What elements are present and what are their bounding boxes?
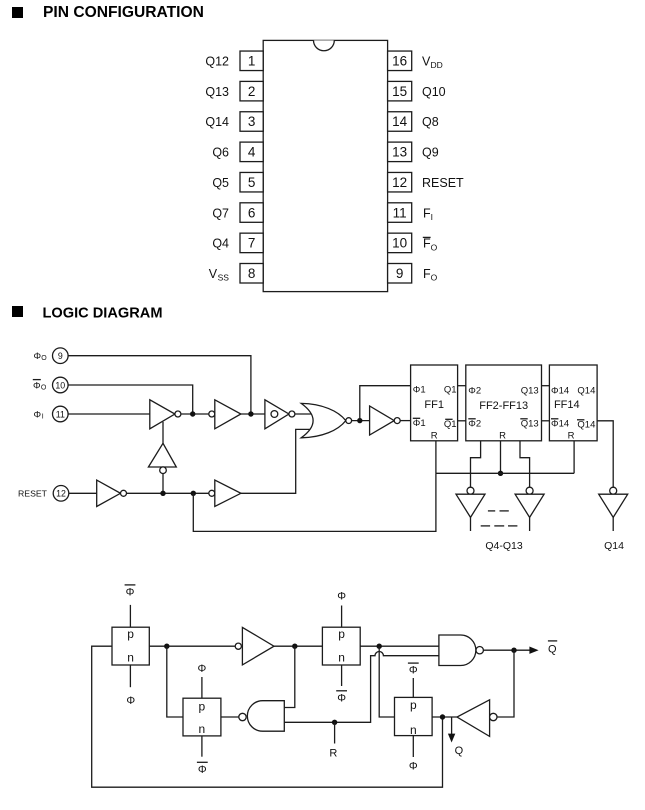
svg-text:Q14: Q14 — [205, 115, 229, 129]
transmission gate TG2 — [322, 627, 360, 665]
svg-text:Q10: Q10 — [422, 85, 446, 99]
svg-text:Q6: Q6 — [212, 146, 229, 160]
svg-text:Q13: Q13 — [205, 85, 229, 99]
svg-text:15: 15 — [392, 84, 407, 99]
node F junction — [164, 644, 169, 649]
node J junction — [440, 714, 445, 719]
wire pin 12 to inverter G7 — [69, 492, 97, 494]
section bullet: logic diagram — [12, 306, 23, 317]
svg-text:Φ1: Φ1 — [413, 385, 426, 396]
svg-text:11: 11 — [393, 205, 407, 220]
svg-text:I: I — [431, 212, 433, 222]
wire FF14 R to reset bus — [573, 441, 575, 474]
wire phi-bar to TG4 — [412, 678, 414, 697]
reset bus junction — [498, 471, 503, 476]
transmission gate TG3 — [183, 698, 221, 736]
svg-text:FF14: FF14 — [554, 399, 580, 411]
svg-text:RESET: RESET — [18, 489, 48, 499]
pin circle 12 — [53, 486, 69, 502]
svg-text:I: I — [42, 414, 44, 421]
svg-text:10: 10 — [55, 380, 65, 390]
svg-text:Q14: Q14 — [577, 419, 595, 430]
svg-text:12: 12 — [392, 175, 407, 190]
wire Q1-bar to phi2-bar — [458, 420, 466, 422]
svg-text:O: O — [431, 242, 438, 252]
node PhiI label — [34, 409, 44, 420]
pin 12 box — [388, 172, 412, 192]
pin 11 label FI — [423, 206, 433, 222]
wire Q14-bar to buffer BC — [597, 421, 613, 487]
pin 3 box — [240, 112, 263, 132]
pin 15 box — [388, 81, 412, 101]
pin 4 box — [240, 142, 263, 162]
svg-text:Q13: Q13 — [521, 418, 539, 429]
TG2 phi-bar label — [336, 691, 347, 705]
wire G2 to G3 — [241, 413, 265, 415]
pin 9 box — [388, 264, 412, 284]
flip-flop FF14 — [549, 365, 597, 441]
wire TG2 to phi-bar — [341, 665, 343, 686]
node A junction — [248, 411, 253, 416]
pin 6 box — [240, 203, 263, 223]
wire phi to TG2 — [341, 606, 343, 628]
svg-text:Q14: Q14 — [577, 385, 595, 396]
svg-text:RESET: RESET — [422, 176, 464, 190]
label Q-bar — [548, 641, 557, 655]
wire G1 to inverter G6 — [162, 422, 164, 444]
pin 8 label VSS — [209, 267, 229, 283]
node E junction — [191, 491, 196, 496]
svg-text:Q14: Q14 — [604, 540, 624, 552]
svg-text:Φ: Φ — [34, 351, 42, 362]
pin 8 box — [240, 264, 263, 284]
wire Q1 to phi2 — [458, 385, 466, 387]
pin 5 box — [240, 172, 263, 192]
wire Q13 to buffer BB — [520, 441, 530, 487]
svg-text:V: V — [209, 267, 218, 281]
svg-text:R: R — [499, 430, 506, 441]
wire Q13 to phi14 — [542, 385, 550, 387]
svg-text:Φ: Φ — [126, 586, 135, 598]
svg-text:O: O — [41, 355, 47, 362]
inverter G1 — [150, 400, 181, 429]
svg-text:6: 6 — [248, 205, 256, 220]
node I junction — [511, 648, 516, 653]
svg-text:n: n — [338, 651, 345, 665]
wire to NAND N3 lower input (with hop) — [284, 652, 439, 723]
svg-text:O: O — [41, 385, 47, 392]
wire N4 input from Q-bar — [497, 650, 514, 717]
wire node R stub — [334, 722, 336, 743]
svg-text:Φ2: Φ2 — [468, 418, 481, 429]
svg-text:n: n — [199, 722, 206, 736]
IC package body U1 — [263, 40, 387, 291]
svg-text:Q4-Q13: Q4-Q13 — [485, 540, 523, 552]
svg-text:Q13: Q13 — [521, 385, 539, 396]
pin 16 box — [388, 51, 412, 71]
arrow Q-bar — [529, 647, 538, 654]
svg-text:p: p — [199, 699, 206, 713]
svg-text:p: p — [338, 627, 345, 641]
flip-flop FF2-FF13 — [466, 365, 542, 441]
wire feedback loop left — [92, 646, 443, 787]
TG3 phi-bar label — [197, 762, 208, 776]
wire BC output stub — [612, 517, 614, 531]
inverter N4 (points left) — [457, 700, 497, 737]
svg-text:Q5: Q5 — [212, 176, 229, 190]
pin 2 box — [240, 81, 263, 101]
svg-text:Φ14: Φ14 — [551, 385, 569, 396]
wire phi-bar to TG1 — [129, 605, 131, 627]
svg-text:SS: SS — [218, 273, 230, 283]
wire phi to TG3 — [201, 677, 203, 698]
wire node C to FF1 phi1 input — [360, 386, 411, 421]
output buffer BC — [599, 487, 628, 517]
wire TG3 to NAND N2 output — [221, 716, 239, 718]
svg-text:Φ: Φ — [409, 761, 418, 773]
ellipsis dashes lower — [481, 525, 518, 527]
svg-text:DD: DD — [431, 60, 443, 70]
svg-text:Φ14: Φ14 — [551, 418, 569, 429]
svg-text:FF1: FF1 — [424, 399, 444, 411]
wire Q13-bar to phi14-bar — [542, 420, 550, 422]
svg-text:R: R — [431, 430, 438, 441]
svg-text:Q1: Q1 — [444, 385, 457, 396]
reset bus wire — [436, 472, 574, 474]
wire TG4 to inverter N4 — [432, 716, 457, 718]
pin 13 box — [388, 142, 412, 162]
svg-text:n: n — [127, 651, 134, 665]
wire from pin 9 to node A — [68, 356, 251, 414]
NAND gate N2 (points left) — [239, 701, 284, 732]
pin 10 label FO-bar — [423, 237, 438, 253]
wire G5 to FF1 phi1-bar input — [400, 420, 410, 422]
wire G7 to G8 — [127, 492, 209, 494]
transmission gate TG1 — [112, 627, 149, 665]
svg-text:Q8: Q8 — [422, 115, 439, 129]
pin 14 box — [388, 112, 412, 132]
inverter G2 (input bubble) — [209, 400, 241, 429]
pin 9 label FO — [423, 267, 438, 283]
svg-text:Φ: Φ — [409, 665, 418, 677]
wire node F to TG3 — [167, 646, 183, 717]
inverter G3 (hysteresis circle) — [265, 400, 295, 429]
pin 1 box — [240, 51, 263, 71]
pin 11 box — [388, 203, 412, 223]
wire from pin 10 to node B — [68, 385, 193, 414]
arrow Q — [448, 717, 455, 743]
svg-text:1: 1 — [248, 54, 256, 69]
section bullet: pin configuration — [12, 7, 23, 18]
pin 16 label VDD — [422, 55, 443, 71]
svg-text:11: 11 — [56, 409, 65, 419]
wire R feedback to FF reset bus — [193, 473, 436, 531]
svg-text:O: O — [431, 273, 438, 283]
svg-text:Φ: Φ — [337, 591, 346, 603]
wire NOR to G5 — [352, 420, 370, 422]
svg-text:R: R — [329, 748, 337, 760]
flip-flop FF1 — [411, 365, 458, 441]
output buffer BB — [515, 487, 544, 517]
svg-text:8: 8 — [248, 266, 256, 281]
svg-text:R: R — [568, 430, 575, 441]
wire TG2 to NAND N3 top input — [360, 645, 439, 647]
pin circle 9 — [53, 348, 69, 364]
inverter G7 — [97, 480, 127, 506]
svg-text:4: 4 — [248, 145, 256, 160]
svg-text:Φ1: Φ1 — [413, 418, 426, 429]
svg-text:5: 5 — [248, 175, 256, 190]
TG4 phi-bar label — [408, 663, 419, 677]
wire node H to TG4 — [379, 646, 394, 717]
svg-text:Φ: Φ — [126, 695, 135, 707]
svg-text:7: 7 — [248, 236, 256, 251]
wire FF1 R to reset bus — [435, 441, 437, 474]
ellipsis dashes upper — [488, 510, 509, 512]
svg-text:14: 14 — [392, 114, 408, 129]
inverter G5 — [370, 406, 401, 435]
svg-text:Q9: Q9 — [422, 146, 439, 160]
svg-text:Φ: Φ — [33, 380, 41, 391]
svg-text:3: 3 — [248, 114, 256, 129]
wire from pin 11 to inverter G1 — [68, 413, 150, 415]
wire Q4 to buffer BA — [471, 441, 481, 487]
TG1 phi-bar label — [125, 585, 136, 599]
svg-text:Q: Q — [548, 643, 557, 655]
svg-text:Φ: Φ — [34, 409, 42, 420]
pin 10 box — [388, 233, 412, 253]
wire node G to NAND N2 top input — [284, 646, 295, 707]
svg-text:Q: Q — [455, 745, 464, 757]
transmission gate TG4 — [395, 697, 433, 737]
NOR gate G4 — [301, 403, 351, 437]
NAND gate N3 — [439, 635, 484, 666]
svg-text:p: p — [127, 627, 134, 641]
node G junction — [292, 644, 297, 649]
node PhiO-bar label — [33, 380, 47, 392]
wire N3 to Q-bar output — [483, 649, 529, 651]
node D junction — [160, 491, 165, 496]
wire FF2 R to reset bus — [500, 441, 502, 474]
wire G8 to NOR lower input — [241, 429, 310, 493]
wire G3 to NOR G4 — [295, 413, 312, 415]
pin 7 box — [240, 233, 263, 253]
svg-text:Φ: Φ — [198, 764, 207, 776]
node R junction — [332, 720, 337, 725]
wire N1 to TG2 — [274, 645, 322, 647]
svg-text:2: 2 — [248, 84, 256, 99]
wire TG1 to inverter N1 — [149, 645, 235, 647]
wire TG1 to phi — [129, 665, 131, 687]
svg-text:9: 9 — [58, 351, 63, 361]
svg-text:10: 10 — [392, 236, 407, 251]
svg-text:Q7: Q7 — [212, 206, 229, 220]
svg-text:Q12: Q12 — [205, 55, 229, 69]
wire G6 to reset line — [162, 473, 164, 493]
node B junction — [190, 411, 195, 416]
wire TG3 to phi-bar — [201, 736, 203, 757]
wire TG4 to phi — [412, 736, 414, 757]
wire G1 to G2 — [181, 413, 209, 415]
svg-text:Q4: Q4 — [212, 237, 229, 251]
inverter G8 (input bubble) — [209, 480, 241, 506]
svg-text:PIN CONFIGURATION: PIN CONFIGURATION — [43, 4, 204, 21]
output buffer BA — [456, 487, 485, 517]
node C junction — [357, 418, 362, 423]
inverter G6 (points up) — [148, 443, 176, 473]
svg-text:12: 12 — [56, 489, 66, 499]
svg-text:16: 16 — [392, 54, 407, 69]
svg-text:Φ2: Φ2 — [468, 385, 481, 396]
svg-text:n: n — [410, 723, 417, 737]
svg-text:Q1: Q1 — [444, 419, 457, 430]
wire BA output stub — [470, 517, 472, 531]
wire BB output stub — [529, 517, 531, 531]
svg-text:13: 13 — [392, 145, 407, 160]
node PhiO label — [34, 351, 48, 362]
pin circle 11 — [53, 406, 69, 422]
inverter N1 (input bubble) — [235, 627, 274, 665]
svg-text:LOGIC DIAGRAM: LOGIC DIAGRAM — [43, 305, 163, 321]
node H junction — [377, 644, 382, 649]
svg-text:Φ: Φ — [337, 692, 346, 704]
svg-text:FF2-FF13: FF2-FF13 — [479, 400, 528, 412]
svg-text:9: 9 — [396, 266, 404, 281]
pin circle 10 — [53, 377, 69, 393]
svg-text:Φ: Φ — [198, 663, 207, 675]
svg-text:p: p — [410, 698, 417, 712]
